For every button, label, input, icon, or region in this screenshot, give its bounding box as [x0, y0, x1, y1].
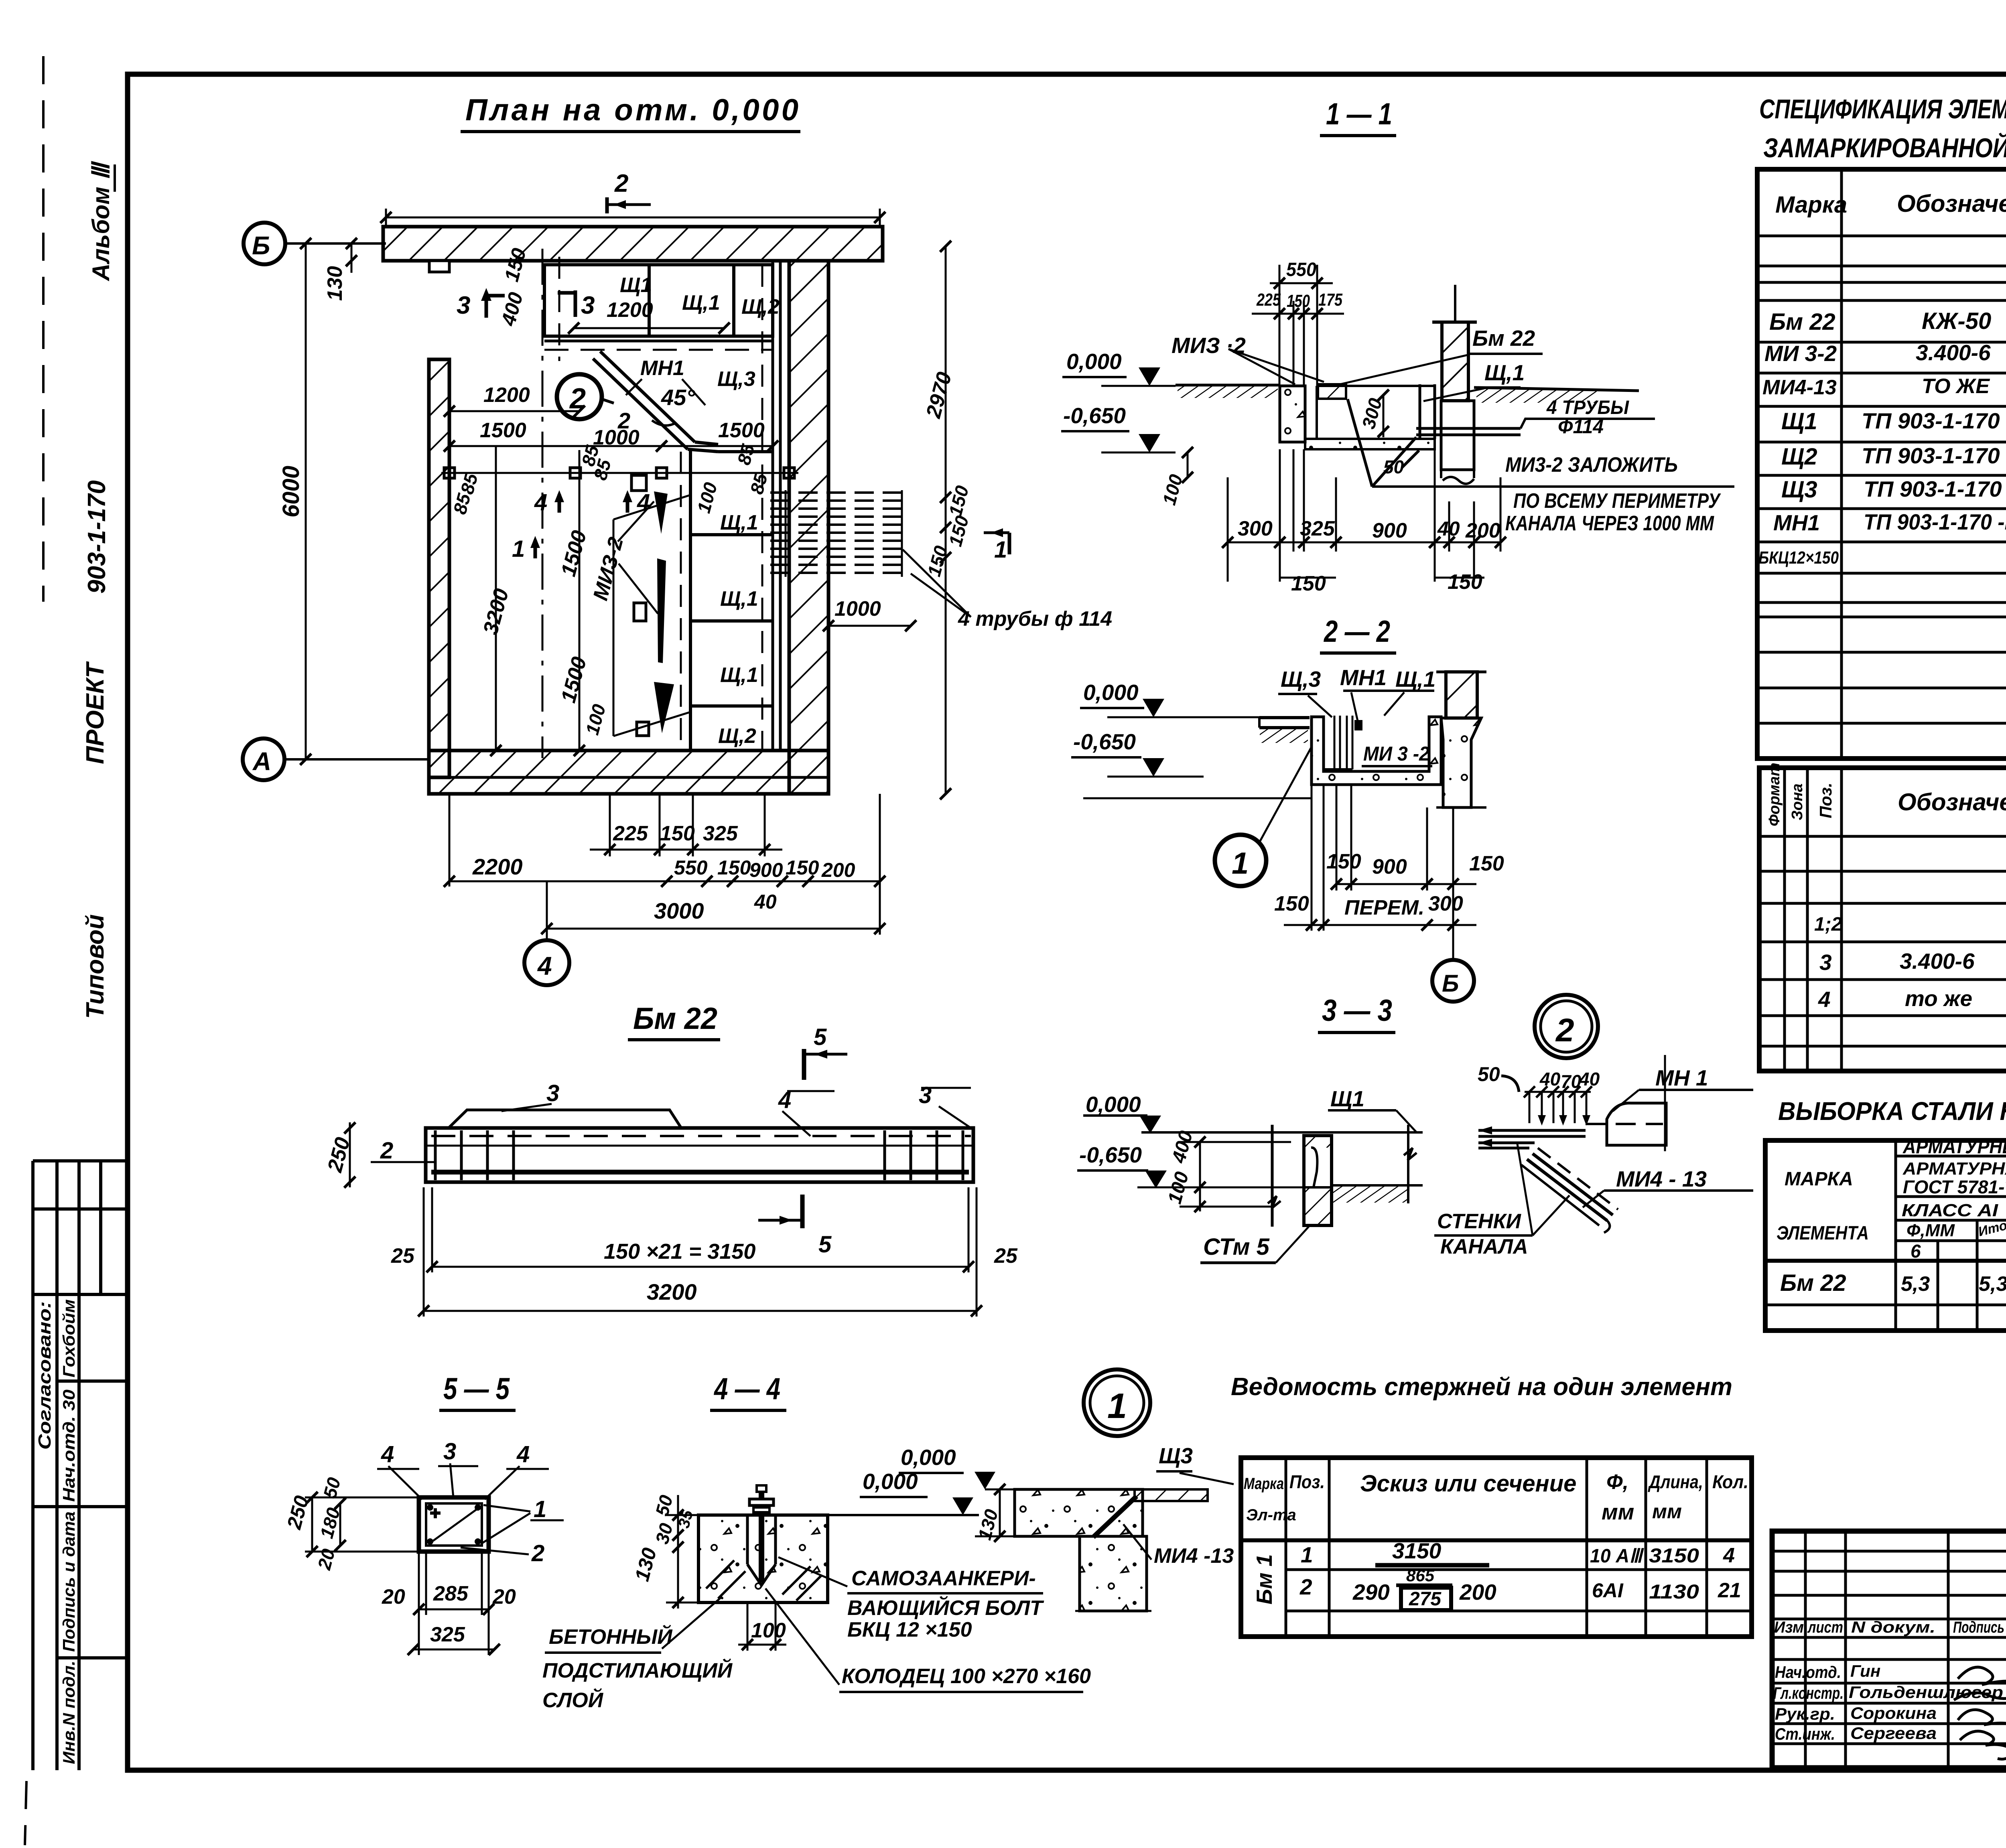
- svg-text:4: 4: [534, 489, 547, 515]
- svg-text:275: 275: [1409, 1588, 1442, 1610]
- svg-text:2: 2: [1299, 1574, 1312, 1599]
- svg-text:Формат: Формат: [1766, 763, 1783, 826]
- left dims: [282, 1475, 419, 1572]
- svg-text:30: 30: [651, 1521, 677, 1546]
- svg-text:Гл.констр.: Гл.констр.: [1773, 1684, 1844, 1702]
- svg-text:100: 100: [693, 480, 721, 515]
- signatures: [1958, 1667, 2006, 1685]
- spec table heading: [1759, 93, 2006, 163]
- svg-text:3.400-6: 3.400-6: [1916, 340, 1991, 365]
- left wall hatched: [429, 359, 449, 777]
- svg-text:КОЛОДЕЦ 100 ×270 ×160: КОЛОДЕЦ 100 ×270 ×160: [842, 1665, 1091, 1688]
- chute diagonal: [593, 351, 773, 452]
- 4 pipes label: [903, 550, 1112, 631]
- svg-text:3150: 3150: [1392, 1538, 1442, 1563]
- svg-text:150: 150: [1326, 850, 1361, 873]
- svg-text:150: 150: [944, 513, 973, 549]
- Sch1 label: [1423, 360, 1525, 401]
- svg-text:150 ×21 = 3150: 150 ×21 = 3150: [604, 1239, 755, 1264]
- right wall hatched + pier: [1436, 672, 1486, 807]
- svg-text:Согласовано:: Согласовано:: [35, 1301, 55, 1450]
- svg-text:МИ4 -13: МИ4 -13: [1154, 1544, 1234, 1568]
- MIZ-2 label: [1172, 333, 1324, 384]
- spec table 2: [1759, 763, 2006, 1071]
- svg-text:ГОСТ 5781-75: ГОСТ 5781-75: [1903, 1177, 2006, 1197]
- svg-text:300: 300: [1358, 396, 1386, 431]
- svg-text:290: 290: [1352, 1580, 1390, 1605]
- svg-text:Щ1: Щ1: [1330, 1086, 1364, 1111]
- svg-text:4: 4: [1723, 1544, 1735, 1567]
- labels: [371, 1080, 971, 1164]
- detail circle 2 in plan: [557, 374, 630, 433]
- top panel row: [544, 265, 780, 350]
- svg-text:0,000: 0,000: [1083, 680, 1139, 705]
- dim 250: [323, 1122, 355, 1188]
- level: [860, 1469, 973, 1515]
- svg-text:300: 300: [1238, 517, 1273, 540]
- svg-text:АРМАТУРНАЯ СТАЛЬ: АРМАТУРНАЯ СТАЛЬ: [1902, 1159, 2006, 1179]
- svg-text:МИЗ ·2: МИЗ ·2: [1172, 333, 1246, 358]
- svg-text:900: 900: [1372, 519, 1407, 542]
- svg-text:Кол.: Кол.: [1712, 1471, 1748, 1492]
- svg-text:Щ1: Щ1: [620, 274, 652, 297]
- bottom dim chain 1-1: [1222, 449, 1506, 595]
- MI4-13 label: [1583, 1166, 1753, 1207]
- interior vertical dims: [479, 446, 610, 756]
- svg-text:0,000: 0,000: [1086, 1092, 1141, 1117]
- svg-text:100: 100: [1158, 472, 1186, 507]
- svg-text:900: 900: [1372, 855, 1407, 878]
- levels: [1071, 680, 1312, 798]
- svg-text:ТП 903-1-170 -КЖИ-Щ3: ТП 903-1-170 -КЖИ-Щ3: [1864, 477, 2006, 501]
- svg-text:ПРОЕКТ: ПРОЕКТ: [81, 661, 109, 764]
- svg-text:Обозначение: Обозначение: [1897, 190, 2006, 217]
- dims below: [1274, 785, 1504, 931]
- svg-text:5,3: 5,3: [1901, 1272, 1930, 1296]
- svg-text:БЕТОННЫЙ: БЕТОННЫЙ: [549, 1625, 673, 1649]
- svg-text:0,000: 0,000: [1066, 349, 1122, 374]
- DETAIL 1: [860, 1369, 1234, 1611]
- svg-text:Ф,ММ: Ф,ММ: [1907, 1221, 1955, 1240]
- lower dim chain: [444, 794, 885, 935]
- section flag 2 top: [607, 170, 651, 213]
- left margin bottom block: [33, 1161, 128, 1770]
- svg-text:МН 1: МН 1: [1655, 1065, 1708, 1090]
- svg-text:2: 2: [531, 1540, 544, 1566]
- svg-text:СЛОЙ: СЛОЙ: [542, 1688, 604, 1712]
- svg-text:3: 3: [546, 1080, 559, 1106]
- grid circle B bottom: [1432, 931, 1474, 1002]
- svg-text:903-1-170: 903-1-170: [83, 480, 111, 594]
- svg-text:40: 40: [1579, 1069, 1600, 1089]
- svg-text:МИ 3-2: МИ 3-2: [1764, 341, 1837, 366]
- grid circle 4 bottom: [524, 881, 569, 985]
- svg-text:1: 1: [1232, 846, 1249, 880]
- bolt line: [441, 441, 798, 516]
- section 5 bottom mark: [758, 1195, 832, 1258]
- svg-text:Щ3: Щ3: [1159, 1443, 1193, 1468]
- svg-text:200: 200: [1459, 1580, 1496, 1605]
- right wall hatched: [789, 261, 828, 794]
- svg-text:Щ,1: Щ,1: [1395, 667, 1435, 692]
- svg-text:85: 85: [746, 471, 772, 496]
- canal U concrete: [1312, 716, 1441, 785]
- svg-text:550: 550: [1286, 259, 1316, 280]
- svg-text:4: 4: [537, 951, 552, 980]
- svg-text:ЭЛЕМЕНТА: ЭЛЕМЕНТА: [1777, 1223, 1869, 1244]
- svg-text:0,000: 0,000: [863, 1469, 918, 1494]
- svg-text:ТП 903-1-170 -КЖИ-Щ1: ТП 903-1-170 -КЖИ-Щ1: [1862, 408, 2006, 433]
- svg-text:Нач.отд. 30: Нач.отд. 30: [59, 1390, 78, 1502]
- sheet edge dashed line: [42, 56, 45, 602]
- STm5 label: [1200, 1227, 1309, 1263]
- vertical dim 6000: [278, 238, 311, 765]
- svg-text:Ф,: Ф,: [1606, 1471, 1628, 1494]
- MIZ-2 embedded plates: [613, 475, 692, 736]
- svg-text:А: А: [252, 747, 271, 776]
- svg-text:СТЕНКИ: СТЕНКИ: [1437, 1210, 1522, 1233]
- svg-text:150: 150: [1469, 852, 1504, 875]
- left dims: [631, 1493, 698, 1609]
- svg-text:50: 50: [1383, 456, 1404, 477]
- dim 1000 bottom right: [823, 597, 916, 631]
- svg-text:3: 3: [457, 292, 470, 319]
- svg-text:Эл-та: Эл-та: [1246, 1506, 1296, 1524]
- title block: [1772, 1531, 2006, 1770]
- svg-text:Щ1: Щ1: [1781, 408, 1817, 434]
- svg-text:Щ2: Щ2: [1781, 444, 1817, 470]
- svg-text:225: 225: [613, 822, 648, 845]
- svg-text:Ф114: Ф114: [1558, 416, 1604, 438]
- svg-text:Длина,: Длина,: [1648, 1471, 1703, 1492]
- MN1 label: [626, 357, 705, 405]
- central vertical + panel: [1268, 1125, 1332, 1227]
- ground hatch left: [1176, 385, 1280, 398]
- V pointer + note: [1348, 399, 1734, 535]
- svg-text:1130: 1130: [1649, 1580, 1699, 1603]
- dim 2970 vertical right: [922, 241, 973, 799]
- labels above: [1278, 665, 1435, 721]
- svg-text:3150: 3150: [1649, 1544, 1699, 1567]
- svg-text:мм: мм: [1602, 1499, 1634, 1524]
- svg-text:25: 25: [994, 1244, 1018, 1268]
- rotated dims 150 400 at top: [497, 246, 530, 329]
- svg-text:СТм 5: СТм 5: [1203, 1234, 1270, 1260]
- SECTION 1-1: [1061, 97, 1734, 595]
- svg-text:КЖ-50: КЖ-50: [1922, 308, 1991, 334]
- svg-text:1500: 1500: [718, 419, 765, 442]
- svg-text:Зона: Зона: [1789, 783, 1806, 820]
- upper dims 550 / 225 150 175: [1252, 259, 1344, 386]
- svg-text:План на отм. 0,000: План на отм. 0,000: [465, 93, 798, 127]
- dim 130: [974, 1484, 1015, 1542]
- svg-text:Щ,3: Щ,3: [717, 367, 755, 391]
- svg-text:Бм 22: Бм 22: [633, 1002, 717, 1036]
- rod list table: [1231, 1373, 1752, 1637]
- svg-text:Изм: Изм: [1774, 1619, 1804, 1636]
- svg-text:3.400-6: 3.400-6: [1900, 949, 1975, 974]
- stirrups: [435, 1130, 963, 1180]
- dim 100: [738, 1604, 786, 1651]
- svg-text:Обозначение: Обозначение: [1898, 789, 2006, 815]
- svg-text:200: 200: [821, 859, 855, 881]
- bolt recess + anchor: [747, 1485, 776, 1585]
- svg-text:Подпись и дата: Подпись и дата: [59, 1511, 78, 1652]
- level 0.000: [1062, 349, 1176, 386]
- svg-text:3 — 3: 3 — 3: [1322, 994, 1392, 1028]
- SECTION 2-2: [1071, 615, 1504, 1002]
- svg-text:КАНАЛА: КАНАЛА: [1440, 1235, 1528, 1258]
- svg-text:85: 85: [456, 471, 482, 496]
- svg-text:400: 400: [1168, 1128, 1197, 1165]
- svg-text:Гохбойм: Гохбойм: [59, 1299, 78, 1377]
- grid circle B: [244, 223, 386, 264]
- levels: [1077, 1092, 1423, 1188]
- svg-text:Типовой: Типовой: [81, 914, 109, 1019]
- svg-text:БКЦ 12 ×150: БКЦ 12 ×150: [847, 1618, 972, 1641]
- svg-text:Ст.инж.: Ст.инж.: [1775, 1724, 1835, 1743]
- svg-text:250: 250: [282, 1493, 313, 1532]
- svg-text:300: 300: [1428, 892, 1463, 915]
- svg-text:40: 40: [754, 891, 777, 913]
- dims 50 40 70 40: [1478, 1063, 1600, 1126]
- svg-text:Щ,2: Щ,2: [718, 724, 756, 748]
- section flag 1 right: [984, 528, 1009, 563]
- svg-text:1: 1: [534, 1496, 546, 1522]
- svg-text:325: 325: [1300, 517, 1335, 540]
- top bar trapezoid: [449, 1110, 681, 1128]
- svg-text:2970: 2970: [922, 369, 956, 421]
- svg-text:Б: Б: [1442, 970, 1459, 997]
- MIZ-2 rotated label: [589, 501, 658, 614]
- Bm22 beam profile left + ground: [1259, 718, 1310, 743]
- labels: [377, 1438, 564, 1566]
- MN1 bent plate: [1586, 1055, 1666, 1151]
- svg-text:150: 150: [1274, 892, 1309, 915]
- svg-text:МАРКА: МАРКА: [1785, 1168, 1853, 1190]
- detail circle 1: [1215, 747, 1312, 886]
- svg-text:МИ4 - 13: МИ4 - 13: [1616, 1166, 1707, 1191]
- svg-text:200: 200: [1465, 519, 1500, 542]
- svg-text:-0,650: -0,650: [1079, 1142, 1142, 1167]
- dash-dot grid line 4 vertical: [542, 249, 544, 758]
- svg-text:3200: 3200: [647, 1279, 697, 1304]
- MN1 label: [1613, 1065, 1753, 1111]
- svg-text:150: 150: [1448, 570, 1482, 594]
- horizontals: [1896, 1155, 2006, 1158]
- ground right: [1332, 1125, 1423, 1203]
- svg-text:Щ,1: Щ,1: [720, 511, 758, 534]
- svg-text:4: 4: [381, 1441, 394, 1467]
- bottom interior dims 225 150 325: [590, 794, 782, 856]
- top dim line: [380, 209, 885, 226]
- svg-text:865: 865: [1406, 1566, 1435, 1585]
- verticals: [1894, 1140, 1897, 1331]
- svg-text:лист: лист: [1807, 1619, 1843, 1636]
- svg-text:100: 100: [1164, 1169, 1193, 1206]
- svg-text:Бм 22: Бм 22: [1769, 309, 1835, 335]
- svg-text:25: 25: [391, 1244, 415, 1268]
- svg-text:Щ,3: Щ,3: [1281, 667, 1321, 692]
- svg-text:ВАЮЩИЙСЯ БОЛТ: ВАЮЩИЙСЯ БОЛТ: [847, 1596, 1044, 1620]
- ground hatch right: [1474, 387, 1639, 403]
- svg-text:N докум.: N докум.: [1851, 1619, 1935, 1636]
- svg-text:2200: 2200: [472, 854, 523, 879]
- svg-text:20: 20: [492, 1585, 516, 1609]
- svg-text:Щ,1: Щ,1: [720, 587, 758, 611]
- svg-text:4: 4: [1818, 987, 1831, 1012]
- slab + column: [1015, 1489, 1208, 1611]
- svg-text:6000: 6000: [278, 466, 304, 517]
- section flag 3 left: [457, 288, 505, 319]
- svg-text:ПО ВСЕМУ ПЕРИМЕТРУ: ПО ВСЕМУ ПЕРИМЕТРУ: [1513, 489, 1721, 513]
- svg-text:5 — 5: 5 — 5: [443, 1372, 510, 1406]
- svg-text:2: 2: [380, 1138, 393, 1164]
- svg-text:3: 3: [443, 1438, 456, 1465]
- svg-text:ЗАМАРКИРОВАННОЙ НА ЛИ: ЗАМАРКИРОВАННОЙ НА ЛИСТЕ: [1763, 132, 2006, 163]
- section flag 1 left: [512, 536, 540, 562]
- svg-text:3: 3: [581, 292, 595, 319]
- svg-text:1200: 1200: [607, 298, 653, 322]
- canal section concrete: [1280, 384, 1435, 449]
- svg-text:5: 5: [814, 1024, 827, 1050]
- svg-text:1;2: 1;2: [1814, 914, 1842, 935]
- svg-text:21: 21: [1718, 1579, 1741, 1602]
- svg-text:Нач.отд.: Нач.отд.: [1775, 1663, 1841, 1682]
- svg-text:ВЫБОРКА СТАЛИ НА: ВЫБОРКА СТАЛИ НА ОДИН ЭЛЕМЕНТ, КГ: [1778, 1097, 2006, 1126]
- svg-text:ТП 903-1-170 -КЖИ- МН1: ТП 903-1-170 -КЖИ- МН1: [1864, 509, 2006, 534]
- svg-text:2: 2: [1555, 1012, 1574, 1049]
- svg-text:2: 2: [614, 170, 628, 197]
- svg-text:МН1: МН1: [1773, 510, 1820, 535]
- svg-text:Б: Б: [252, 231, 270, 260]
- svg-text:6АI: 6АI: [1592, 1579, 1624, 1602]
- svg-text:550: 550: [674, 856, 708, 879]
- MI4-13 label: [1123, 1524, 1234, 1568]
- svg-text:Щ,1: Щ,1: [682, 291, 720, 314]
- svg-text:150: 150: [717, 856, 751, 879]
- svg-text:4: 4: [516, 1441, 530, 1467]
- section flags 4: [534, 489, 650, 515]
- svg-text:1500: 1500: [557, 528, 591, 579]
- svg-text:Эскиз или сечение: Эскиз или сечение: [1360, 1471, 1576, 1497]
- Sch3 label: [1156, 1443, 1234, 1484]
- svg-text:ПОДСТИЛАЮЩИЙ: ПОДСТИЛАЮЩИЙ: [542, 1658, 733, 1682]
- Bm22 label: [1340, 326, 1543, 384]
- svg-text:1200: 1200: [483, 383, 530, 407]
- beam Bm22: [323, 1002, 1018, 1317]
- svg-text:Поз.: Поз.: [1289, 1471, 1325, 1492]
- svg-text:Щ,2: Щ,2: [741, 295, 780, 318]
- beam body: [426, 1128, 973, 1182]
- svg-text:КАНАЛА ЧЕРЕЗ 1000 ММ: КАНАЛА ЧЕРЕЗ 1000 ММ: [1505, 512, 1714, 535]
- SECTION 5-5: [282, 1372, 564, 1655]
- left margin vertical labels: [81, 161, 115, 1019]
- svg-text:ТО ЖЕ: ТО ЖЕ: [1922, 375, 1990, 398]
- svg-text:Бм 22: Бм 22: [1472, 326, 1535, 351]
- svg-text:Бм 1: Бм 1: [1252, 1554, 1277, 1605]
- concrete block: [698, 1515, 828, 1603]
- svg-text:150: 150: [944, 483, 973, 519]
- svg-text:Сорокина: Сорокина: [1850, 1704, 1937, 1722]
- top plate: [1478, 1126, 1586, 1148]
- svg-text:6: 6: [1911, 1241, 1921, 1262]
- svg-text:1 — 1: 1 — 1: [1326, 97, 1392, 131]
- bottom wall hatched: [429, 751, 828, 794]
- level -0.650: [1061, 403, 1176, 452]
- svg-text:МИ3-2 ЗАЛОЖИТЬ: МИ3-2 ЗАЛОЖИТЬ: [1505, 453, 1678, 477]
- svg-text:20: 20: [382, 1585, 405, 1609]
- stenki kanala: [1434, 1144, 1569, 1258]
- svg-text:Бм 22: Бм 22: [1780, 1270, 1846, 1296]
- svg-text:Рук.гр.: Рук.гр.: [1775, 1704, 1835, 1723]
- svg-text:Альбом Ⅲ: Альбом Ⅲ: [87, 161, 114, 282]
- svg-text:Инв.N подл.: Инв.N подл.: [59, 1661, 78, 1764]
- svg-text:Гин: Гин: [1850, 1661, 1880, 1680]
- level mark: [828, 1445, 1017, 1515]
- svg-text:150: 150: [1291, 572, 1326, 595]
- svg-text:1: 1: [512, 536, 525, 562]
- svg-text:САМОЗААНКЕРИ-: САМОЗААНКЕРИ-: [851, 1567, 1036, 1590]
- svg-text:МИ 3 -2: МИ 3 -2: [1363, 742, 1429, 765]
- svg-text:325: 325: [430, 1623, 465, 1646]
- right notes: [778, 1557, 1044, 1641]
- svg-text:Ведомость стержней на о: Ведомость стержней на один элемент: [1231, 1373, 1732, 1401]
- svg-text:Поз.: Поз.: [1816, 783, 1835, 818]
- svg-text:Марка: Марка: [1244, 1475, 1284, 1493]
- bottom dims: [382, 1552, 516, 1655]
- left notes: [542, 1596, 733, 1712]
- svg-text:1: 1: [1107, 1386, 1127, 1426]
- svg-text:МН1: МН1: [640, 357, 684, 380]
- svg-text:3000: 3000: [654, 898, 704, 923]
- top wall hatched: [383, 227, 883, 272]
- svg-text:10 АⅢ: 10 АⅢ: [1590, 1546, 1645, 1567]
- svg-text:1: 1: [1301, 1542, 1313, 1567]
- dim 130: [323, 238, 357, 301]
- svg-text:-0,650: -0,650: [1073, 729, 1136, 754]
- svg-text:50: 50: [1478, 1063, 1500, 1085]
- svg-text:150: 150: [786, 856, 819, 879]
- right wall column hatched + pier: [1432, 285, 1477, 484]
- svg-text:225: 225: [1256, 290, 1281, 310]
- sloped wall lines: [1521, 1148, 1618, 1233]
- svg-text:БКЦ12×150: БКЦ12×150: [1758, 548, 1839, 568]
- steel table: [1765, 1136, 2006, 1331]
- canal inner wall double line: [773, 261, 780, 751]
- svg-text:0,000: 0,000: [901, 1445, 956, 1470]
- svg-text:4 ТРУБЫ: 4 ТРУБЫ: [1546, 397, 1629, 418]
- svg-text:МН1: МН1: [1340, 665, 1387, 690]
- section flag 3 right: [558, 290, 595, 319]
- svg-text:Щ,1: Щ,1: [1484, 360, 1525, 385]
- svg-text:325: 325: [703, 822, 738, 845]
- svg-text:СПЕЦИФИКАЦИЯ ЭЛЕМЕНТОВ К: СПЕЦИФИКАЦИЯ ЭЛЕМЕНТОВ К МАРКИРОВОЧНОЙ С…: [1759, 93, 2006, 124]
- Sch1 label: [1328, 1086, 1416, 1132]
- svg-text:мм: мм: [1652, 1500, 1682, 1523]
- svg-text:175: 175: [1318, 290, 1342, 310]
- svg-text:-0,650: -0,650: [1063, 403, 1126, 428]
- svg-text:150: 150: [660, 822, 695, 845]
- DETAIL 2: [1434, 995, 1753, 1258]
- svg-text:1000: 1000: [834, 597, 881, 621]
- SECTION 3-3: [1077, 994, 1423, 1263]
- dim 300 in canal: [1358, 389, 1389, 437]
- svg-text:5: 5: [818, 1231, 832, 1258]
- svg-text:100: 100: [581, 702, 609, 737]
- svg-text:Щ3: Щ3: [1781, 477, 1817, 503]
- svg-text:АРМАТУРНЫЕ ИЗДЕЛИЯ: АРМАТУРНЫЕ ИЗДЕЛИЯ: [1902, 1136, 2006, 1158]
